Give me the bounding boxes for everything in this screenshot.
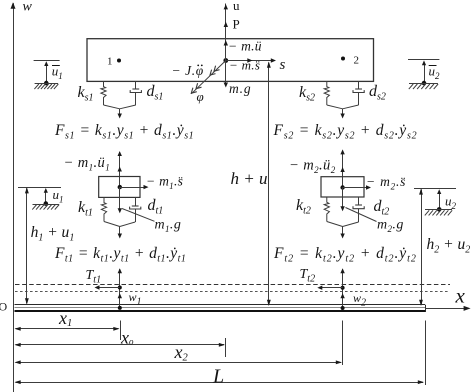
label -m1.u1-dd [64,155,111,173]
label k_t2 [296,197,311,217]
svg-text:Ft2​ = kt2​.yt2​ + dt2​.ẏt2​: Ft2​ = kt2​.yt2​ + dt2​.ẏt2​ [273,245,417,265]
svg-text:Ft1​ = kt1​.yt1​ + dt1​.ẏt1​: Ft1​ = kt1​.yt1​ + dt1​.ẏt1​ [54,245,186,265]
wheel 2 inertia arrow [340,149,344,187]
svg-text:w: w [23,0,33,15]
svg-text:− m1​.s̈: − m1​.s̈ [146,174,183,192]
dashed line T upper [15,284,450,286]
wheel 2 force arrow [327,222,359,239]
label d_t1 [148,197,164,217]
damper d_t2 [353,197,364,222]
equation F_t2 [273,245,417,265]
svg-text:φ: φ [197,89,204,104]
svg-text:u: u [233,0,240,13]
delay arrow T_t1 [95,285,120,289]
wheel 1 force arrow [104,222,135,239]
label m2.g [377,218,404,235]
dimension h2+u2 [419,188,423,306]
wheel 1 mass rectangle [99,177,140,198]
svg-text:2: 2 [354,55,360,67]
wheel 1 center dot [118,185,122,189]
J phi-dd moment arrow [191,61,226,94]
w axis [11,0,33,392]
svg-text:1: 1 [107,56,113,68]
label d_s1 [147,83,164,103]
label h+u [231,169,268,188]
wheel 1 s arrow [120,185,149,189]
dimension L [15,366,425,388]
tick wheel2 [342,321,344,366]
origin O [0,300,8,314]
dimension h+u [267,62,271,307]
label h1+u1 [31,224,75,244]
equation F_s1 [54,122,194,142]
m.g gravity arrow [224,61,252,96]
label T_t2 [300,267,316,285]
tick road end [425,321,427,386]
damper d_s1 [130,81,141,105]
label -m1.s-dd [146,174,183,192]
static support u-bar-1 [34,61,63,90]
m1.g leader line [122,209,155,222]
dimension h1+u1 [25,187,29,304]
svg-text:O: O [0,300,8,314]
wheel 2 s arrow [343,185,371,189]
static support u-bar-2 [408,60,440,90]
road beam [15,305,426,313]
svg-text:x: x [455,284,466,308]
m2.g leader line [346,208,377,222]
center of gravity dot [223,58,228,63]
label k_s2 [299,84,315,104]
svg-text:s: s [280,57,286,73]
support u2 [414,189,457,216]
label k_t1 [78,199,93,219]
label d_t2 [374,198,390,218]
svg-text:− m2​.s̈: − m2​.s̈ [366,174,406,192]
svg-text:h + u: h + u [231,169,268,188]
u axis arrow with P force [224,0,240,61]
tick wheel1 [120,321,122,341]
spring k_t2 [324,197,329,222]
suspension s2 force arrow [327,105,359,119]
label k_s1 [78,84,94,104]
label w2 [353,291,366,309]
svg-text:h1​ + u1​: h1​ + u1​ [31,224,75,244]
label -m.u-dd [228,39,262,54]
dimension xo [15,328,226,348]
label h2+u2 [427,236,471,256]
label m1.g [155,217,182,234]
svg-text:− m2​.ü2​: − m2​.ü2​ [289,157,336,175]
label -J.phi-dd [172,63,204,78]
label w1 [129,290,142,308]
svg-text:m.g: m.g [229,81,252,96]
wheel 2 mass rectangle [321,177,364,197]
sprung mass body rectangle [87,39,374,82]
spring k_s1 [101,81,106,105]
damper d_s2 [353,81,364,105]
label d_s2 [369,83,386,103]
equation F_s2 [273,122,418,142]
svg-text:P: P [233,17,240,32]
dimension x1 [15,308,120,331]
label phi [197,89,204,104]
label -m.s-dd [229,57,260,72]
dashed line T lower [15,291,450,293]
equation F_t1 [54,245,186,265]
delay arrow T_t2 [317,286,342,290]
wheel 2 center dot [340,185,344,189]
label T_t1 [86,268,102,286]
support u1 [18,187,64,210]
spring k_s2 [324,81,329,105]
s axis arrow [226,57,286,73]
node 2 marker [341,55,359,67]
svg-text:L: L [212,366,224,388]
spring k_t1 [101,197,106,221]
x axis [425,284,471,311]
damper d_t1 [130,197,141,222]
dimension x2 [15,342,343,364]
svg-text:Fs1​ = ks1​.ys1​ + ds1​.ẏs1​: Fs1​ = ks1​.ys1​ + ds1​.ẏs1​ [54,122,194,142]
svg-text:h2​ + u2​: h2​ + u2​ [427,236,471,256]
tick cg [225,338,227,357]
label -m2.s-dd [366,174,406,192]
wheel 1 gravity arrow [118,187,122,213]
node 1 marker [107,56,121,68]
svg-text:− m.ü: − m.ü [228,39,262,54]
wheel 1 inertia arrow [118,151,122,187]
label -m2.u2-dd [289,157,336,175]
road input line w1 [118,268,122,310]
wheel 2 gravity arrow [340,188,344,212]
suspension s1 force arrow [104,105,136,119]
road input line w2 [340,268,344,310]
svg-text:− m.s̈: − m.s̈ [229,57,260,72]
svg-text:− m1​.ü1​: − m1​.ü1​ [64,155,111,173]
